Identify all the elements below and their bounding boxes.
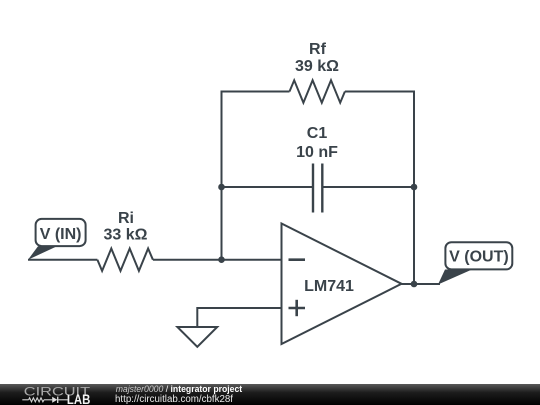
resistor Ri zigzag <box>97 249 152 271</box>
op-amp minus sign <box>289 258 306 261</box>
node dot feedback/input junction <box>218 256 225 263</box>
wire output <box>402 283 441 285</box>
wire C1 right <box>323 186 414 188</box>
svg-text:C1: C1 <box>307 125 328 142</box>
wire C1 left <box>222 186 313 188</box>
svg-text:10 nF: 10 nF <box>296 144 338 161</box>
svg-text:LAB: LAB <box>67 391 90 405</box>
op-amp U1 triangle <box>282 224 402 345</box>
wire input <box>28 259 97 261</box>
svg-text:Rf: Rf <box>309 41 327 58</box>
node dot C1 left junction <box>218 184 225 191</box>
capacitor C1 plates <box>312 164 314 213</box>
svg-text:V (IN): V (IN) <box>40 226 82 243</box>
footer bar <box>0 384 540 405</box>
svg-text:LM741: LM741 <box>304 278 354 295</box>
svg-text:39 kΩ: 39 kΩ <box>295 58 339 75</box>
wire plus input to ground <box>197 308 281 327</box>
svg-text:33 kΩ: 33 kΩ <box>104 227 148 244</box>
logo diode <box>52 397 57 403</box>
wire feedback left vertical <box>222 92 290 261</box>
node dot output junction <box>411 281 418 288</box>
resistor Rf zigzag <box>290 80 345 102</box>
logo wire with resistor and diode <box>22 398 68 402</box>
wire feedback top right <box>345 92 414 285</box>
svg-text:http://circuitlab.com/cbfk28f: http://circuitlab.com/cbfk28f <box>115 394 233 405</box>
node dot C1 right junction <box>411 184 418 191</box>
flag V (IN) <box>28 219 86 260</box>
svg-text:V (OUT): V (OUT) <box>449 249 509 266</box>
wire Ri to op-amp minus <box>153 259 282 261</box>
op-amp plus sign <box>289 307 306 310</box>
flag V (OUT) <box>438 242 512 284</box>
svg-text:Ri: Ri <box>118 210 134 227</box>
ground <box>177 327 217 347</box>
